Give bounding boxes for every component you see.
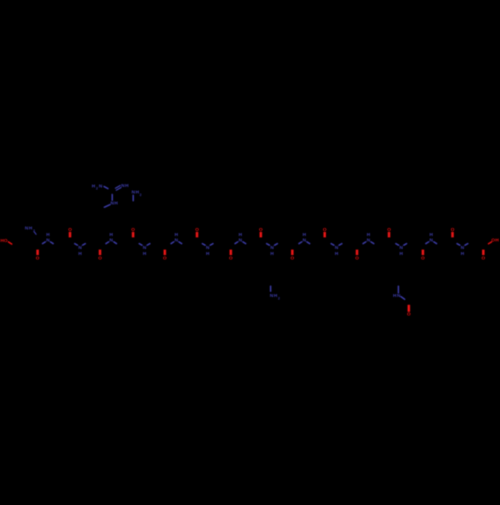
- double bond C=NH: [115, 186, 121, 191]
- svg-text:O: O: [481, 256, 485, 261]
- svg-text:O: O: [323, 227, 327, 232]
- bond H2N-C: [104, 187, 108, 189]
- amide N-H (down) at x=462.4: [457, 244, 468, 257]
- carbonyl C=O (O above) at x=197.0: [195, 227, 199, 238]
- carbonyl C=O (O below) at x=292.3: [290, 250, 294, 261]
- carbonyl C=O (O below) at x=230.8: [229, 250, 233, 261]
- amide N-H (up) at x=176.3: [171, 232, 182, 243]
- carbonyl C=O (O above) at x=389.0: [387, 227, 391, 238]
- amide N-H (down) at x=401.2: [396, 244, 407, 257]
- carbonyl C=O (O below) at x=100.0: [98, 250, 102, 261]
- hydroxyl HO (N-terminal side chain): [0, 238, 11, 244]
- carbonyl C=O (O below) at x=357.0: [355, 250, 359, 261]
- carbonyl C=O (O above) at x=70.0: [68, 227, 72, 238]
- amide N-H (up) at x=431.2: [426, 232, 437, 243]
- lysine NH2 (bottom): [270, 286, 280, 300]
- svg-text:O: O: [68, 227, 72, 232]
- svg-text:O: O: [290, 256, 294, 261]
- amide N-H (up) at x=304.3: [299, 232, 310, 243]
- side-chain NH2 (x=133): [132, 190, 142, 201]
- svg-text:2: 2: [278, 297, 280, 301]
- svg-text:O: O: [195, 227, 199, 232]
- N-terminal amine NH2: [25, 226, 36, 235]
- carbonyl C=O (O below) at x=422.9: [421, 250, 425, 261]
- amide N-H (down) at x=207.7: [202, 244, 213, 257]
- svg-text:O: O: [387, 227, 391, 232]
- bond C-NH vertical: [111, 194, 113, 200]
- C-terminal OH label + bond: [488, 238, 499, 244]
- amide N-H (down) at x=272.0: [267, 244, 278, 257]
- amide N-H (up) at x=240.3: [235, 232, 246, 243]
- svg-text:2: 2: [96, 187, 98, 191]
- svg-text:O: O: [36, 256, 40, 261]
- svg-text:O: O: [163, 256, 167, 261]
- svg-text:O: O: [131, 227, 135, 232]
- svg-text:O: O: [451, 227, 455, 232]
- carbonyl C=O (O below) at x=164.8: [163, 250, 167, 261]
- svg-text:O: O: [421, 256, 425, 261]
- amide N-H (up) at x=111.2: [106, 232, 117, 243]
- svg-text:2: 2: [140, 193, 142, 197]
- svg-text:O: O: [259, 227, 263, 232]
- guanidinium =NH label: [121, 183, 129, 188]
- amide N-H (down) at x=80.0: [75, 244, 86, 257]
- carbonyl C=O (O above) at x=452.5: [451, 227, 455, 238]
- bond NH-CH2 (down-left): [104, 205, 110, 208]
- carbonyl C=O (O below) at x=483.3: [481, 250, 485, 261]
- carbonyl C=O (O below) at x=37.6: [36, 250, 40, 261]
- acetamido HN label + bond: [393, 286, 405, 299]
- svg-text:O: O: [98, 256, 102, 261]
- carbonyl C=O (O above) at x=260.8: [259, 227, 263, 238]
- svg-text:O: O: [4, 238, 8, 243]
- svg-text:O: O: [407, 312, 411, 317]
- amide N-H (up) at x=368.4: [363, 232, 374, 243]
- svg-text:O: O: [355, 256, 359, 261]
- svg-text:O: O: [229, 256, 233, 261]
- acetamido C=O: [407, 305, 411, 317]
- carbonyl C=O (O above) at x=133.1: [131, 227, 135, 238]
- amide N-H (down) at x=144.6: [139, 244, 150, 257]
- amide N-H (up) at x=47.9: [43, 232, 54, 243]
- arginine NE NH label: [111, 201, 119, 206]
- amide N-H (down) at x=336.5: [331, 244, 342, 257]
- guanidinium H2N label: [92, 183, 103, 190]
- carbonyl C=O (O above) at x=324.7: [323, 227, 327, 238]
